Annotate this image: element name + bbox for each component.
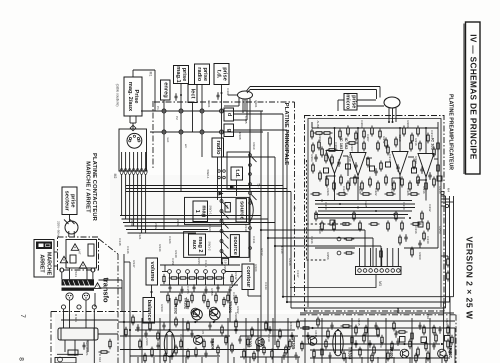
svg-text:prise: prise bbox=[181, 68, 187, 82]
DIN connector circle bbox=[127, 133, 142, 148]
scan haze preamp bbox=[305, 116, 444, 311]
bottom edge stubs bbox=[137, 357, 139, 363]
switch MARCHE/ARRET box bbox=[34, 240, 54, 278]
monitor contacts pair 2 bbox=[337, 251, 341, 255]
wire preamp drop right bbox=[445, 196, 447, 308]
wire down from oval bbox=[244, 99, 246, 111]
connector box prise secteur bbox=[62, 187, 77, 215]
svg-text:R101: R101 bbox=[254, 100, 258, 108]
switch group outline td bbox=[227, 152, 250, 189]
connector box prise micro bbox=[344, 94, 357, 111]
amp band resistors bbox=[132, 315, 134, 318]
preamp board outline bbox=[305, 116, 445, 312]
svg-text:IV — SCHEMAS DE PRINCIPE: IV — SCHEMAS DE PRINCIPE bbox=[469, 34, 478, 160]
control box volume bbox=[146, 258, 158, 285]
svg-text:lect: lect bbox=[190, 89, 196, 99]
preamp vertical drops to strip bbox=[359, 248, 361, 267]
amp band top wire bbox=[300, 312, 454, 314]
op-amp U2 bbox=[350, 153, 366, 176]
svg-text:MARCHE / ARRET: MARCHE / ARRET bbox=[85, 161, 91, 213]
mains plug symbol bbox=[65, 221, 78, 234]
main board outline left edge bbox=[117, 254, 119, 363]
tone area verticals bbox=[151, 285, 153, 297]
wire enreg down bbox=[163, 100, 165, 230]
power supply parts bbox=[55, 358, 76, 363]
wire MARCHE box to contactor bbox=[54, 251, 58, 253]
preamp extra resistors bbox=[311, 129, 313, 132]
pot TR202 bbox=[192, 309, 203, 320]
strip to left wire bbox=[290, 275, 376, 288]
switch box mag 1 bbox=[193, 201, 208, 222]
preamp resistors bbox=[314, 132, 317, 134]
wire row1 horizontal bbox=[141, 110, 263, 112]
cable ellipse to preamp bbox=[384, 97, 400, 108]
svg-text:lect: lect bbox=[166, 138, 170, 143]
amp extra caps bbox=[137, 324, 139, 327]
svg-text:M1: M1 bbox=[149, 72, 153, 77]
connector box enreg bbox=[161, 80, 171, 100]
preamp lower wires bbox=[315, 247, 355, 249]
op-amp U4 bbox=[418, 154, 434, 178]
bus vertical v5 bbox=[286, 130, 288, 302]
bus wires DIN to selectors lower bbox=[120, 215, 261, 217]
svg-text:PLATINE PRINCIPALE: PLATINE PRINCIPALE bbox=[283, 103, 289, 165]
transistor TR201 circle bbox=[209, 307, 218, 316]
amp band verticals bbox=[141, 318, 143, 363]
warning triangle T2 bbox=[60, 256, 68, 263]
main board outline left edge upper bbox=[152, 101, 154, 168]
wire lect down bbox=[192, 103, 194, 133]
amp band ref boxes bbox=[400, 337, 406, 343]
mini box g b bbox=[225, 203, 230, 213]
amp extra parts bbox=[125, 327, 127, 330]
DIN connector wire from prise mag2 bbox=[129, 116, 131, 123]
warning triangle T3 bbox=[79, 262, 87, 269]
svg-text:MARCHE: MARCHE bbox=[46, 252, 52, 276]
connector box prise mag.1 bbox=[174, 66, 189, 84]
signal arrows bbox=[218, 191, 223, 195]
pot TR201 bbox=[210, 309, 221, 320]
bus vertical v3 bbox=[274, 157, 276, 246]
bus corner to output right bbox=[283, 296, 454, 298]
tone resistors row2 bbox=[167, 293, 169, 296]
main board outline bottom left bbox=[51, 311, 150, 313]
connector box lect bbox=[188, 85, 197, 103]
wire dg to right bus bbox=[234, 113, 284, 115]
connector box Prise mag.2/aux bbox=[124, 77, 142, 116]
svg-text:220V~50Hz: 220V~50Hz bbox=[57, 221, 61, 237]
prise secteur wire bbox=[69, 215, 71, 222]
DIN connector entry contact bbox=[130, 125, 136, 131]
selector box t.d. bbox=[231, 167, 243, 180]
switch group outline upper bbox=[185, 197, 250, 224]
switch column x250 bbox=[249, 99, 251, 263]
svg-text:PLATINE PREAMPLIFICATEUR: PLATINE PREAMPLIFICATEUR bbox=[448, 94, 454, 170]
connector contact M4 bbox=[441, 191, 444, 194]
switch bank wire bbox=[221, 200, 223, 263]
tone extra parts bbox=[169, 284, 171, 287]
wire radio socket down bbox=[201, 85, 203, 158]
preamp input drops bbox=[388, 108, 390, 122]
op-amp U1 bbox=[326, 151, 343, 174]
main board outline top edge bbox=[154, 101, 295, 103]
svg-text:P1: P1 bbox=[156, 106, 160, 110]
svg-text:enr: enr bbox=[184, 144, 188, 148]
preamp mid rails bbox=[315, 200, 412, 202]
td switch contacts bbox=[218, 170, 221, 173]
tone verticals bbox=[169, 273, 171, 285]
cable sleeve oval bbox=[238, 91, 253, 99]
bus vertical v4 bbox=[282, 114, 284, 297]
contour switch diagonal bbox=[231, 275, 242, 288]
svg-text:secteur: secteur bbox=[63, 191, 69, 212]
contactor board outline bbox=[58, 237, 99, 270]
transistor TR407 bbox=[438, 349, 447, 358]
wire pair to preamp ellipse bbox=[250, 86, 380, 88]
svg-text:t.d.: t.d. bbox=[215, 70, 221, 79]
svg-text:radio: radio bbox=[215, 141, 221, 155]
electrolytic C327 bbox=[164, 331, 174, 357]
svg-text:ARRET: ARRET bbox=[39, 254, 45, 273]
svg-text:micro: micro bbox=[345, 94, 351, 110]
svg-text:LAT: LAT bbox=[78, 249, 82, 254]
preamp junction dots bbox=[334, 127, 336, 129]
cable oval drop wires bbox=[238, 98, 240, 106]
preamp caps bbox=[315, 154, 317, 157]
main board outline right edge bbox=[294, 102, 296, 296]
electrolytic C427 bbox=[333, 330, 343, 356]
scan haze bottom band bbox=[55, 314, 460, 363]
svg-text:d: d bbox=[226, 113, 232, 116]
transformer terminal M right bbox=[82, 293, 89, 300]
amp left verticals bbox=[123, 254, 125, 363]
op-amp U3 bbox=[392, 152, 408, 176]
selector box radio bbox=[212, 138, 224, 157]
svg-text:radio: radio bbox=[196, 67, 202, 81]
tone resistors row1 bbox=[169, 277, 172, 279]
svg-text:P101: P101 bbox=[74, 270, 78, 277]
wire mag2aux stub bbox=[132, 70, 134, 77]
svg-text:PLATINE CONTACTEUR: PLATINE CONTACTEUR bbox=[91, 153, 97, 222]
amp band caps bbox=[145, 330, 147, 333]
preamp ground loop bbox=[308, 119, 441, 308]
preamp feedback wires bbox=[343, 155, 348, 157]
transistor TR406 bbox=[400, 349, 409, 358]
micro wires bbox=[357, 99, 376, 101]
cable arc bbox=[250, 198, 253, 222]
contactor wires bbox=[69, 268, 71, 279]
transistor TR303 bbox=[256, 338, 265, 347]
wire td box down bbox=[236, 180, 238, 196]
transistor TR305 bbox=[308, 337, 317, 346]
power supply extra parts bbox=[83, 342, 85, 345]
preamp right small parts bbox=[447, 257, 449, 260]
wire radio box down bbox=[217, 157, 219, 200]
wire row2 horizontal bbox=[150, 131, 263, 133]
bundle verticals to bus bbox=[121, 214, 123, 217]
contactor edge contacts bbox=[61, 305, 65, 309]
transformer core bar 2 bbox=[62, 288, 95, 291]
svg-text:C105: C105 bbox=[244, 116, 248, 124]
amp extra wires bbox=[120, 335, 230, 337]
transformer terminal M left bbox=[66, 293, 73, 300]
wire mag1 socket down bbox=[180, 84, 182, 193]
power supply bridge block bbox=[58, 328, 98, 340]
switch group outline lower bbox=[184, 232, 249, 258]
svg-text:Prise: Prise bbox=[133, 90, 139, 104]
svg-text:prise: prise bbox=[70, 194, 76, 208]
svg-text:(câble souderie): (câble souderie) bbox=[116, 84, 120, 107]
preamp bottom connector strip bbox=[356, 267, 402, 275]
svg-text:M4: M4 bbox=[447, 188, 451, 192]
board link diagonal bbox=[99, 239, 118, 254]
preamp right contact 2 bbox=[445, 204, 448, 207]
wire bundle down from DIN bbox=[121, 175, 123, 216]
contactor edge contacts upper bbox=[60, 268, 64, 272]
warning triangle T1 bbox=[71, 244, 79, 251]
svg-text:mag. 2/aux: mag. 2/aux bbox=[127, 82, 133, 112]
switch box source upper bbox=[236, 199, 247, 222]
bus vertical v1 bbox=[260, 111, 262, 230]
input RC parts bbox=[175, 93, 177, 96]
DIN connector pins fan bbox=[121, 152, 123, 171]
bus vertical v2 bbox=[267, 132, 269, 238]
wire t.d. socket down bbox=[221, 85, 223, 201]
transistor TR306 bbox=[193, 335, 202, 344]
svg-text:C101: C101 bbox=[207, 100, 211, 108]
transformer secondary wires bbox=[69, 300, 71, 312]
preamp top rail bbox=[312, 127, 438, 129]
junction row 1 contacts bbox=[162, 109, 166, 113]
title box IV - SCHEMAS DE PRINCIPE bbox=[466, 22, 481, 174]
svg-text:enreg: enreg bbox=[162, 82, 168, 98]
connector ref box 19 bbox=[222, 259, 229, 265]
preamp interconnect wires bbox=[334, 128, 336, 151]
scan haze mid left bbox=[110, 175, 305, 310]
svg-text:prise: prise bbox=[222, 67, 228, 81]
bus vertical v6 bbox=[290, 192, 292, 309]
channel box d bbox=[224, 108, 234, 121]
transformer core bar 1 bbox=[62, 279, 95, 285]
preamp ref boxes bbox=[346, 164, 351, 169]
transistor TR302 bbox=[191, 308, 200, 317]
contactor inner block bbox=[66, 240, 97, 269]
bus wires DIN to selectors upper bbox=[126, 185, 283, 187]
warning triangle transformer bbox=[94, 283, 101, 289]
svg-text:g: g bbox=[226, 129, 232, 132]
svg-text:transfo: transfo bbox=[102, 277, 111, 303]
main board outline bottom edge bbox=[300, 314, 456, 316]
svg-text:C102: C102 bbox=[226, 88, 230, 96]
switch MARCHE/ARRET icon bbox=[36, 242, 52, 250]
control box contour bbox=[242, 264, 254, 290]
svg-text:R108: R108 bbox=[238, 132, 242, 140]
power supply wires bbox=[69, 313, 71, 329]
svg-text:7: 7 bbox=[19, 314, 26, 318]
svg-text:8: 8 bbox=[18, 357, 25, 361]
contactor to main board wires bbox=[99, 279, 123, 281]
connector box prise t.d. bbox=[214, 64, 229, 85]
channel box g bbox=[224, 124, 234, 137]
tone wires mid bbox=[160, 284, 238, 286]
switch contacts bbox=[220, 200, 223, 203]
svg-text:prise: prise bbox=[202, 67, 208, 81]
amp band bus wires bbox=[118, 321, 300, 323]
DIN connector outline box bbox=[119, 129, 147, 171]
control box balance bbox=[143, 298, 155, 324]
monitor contacts pair 1 bbox=[337, 237, 341, 241]
tone area top wires bbox=[160, 264, 240, 266]
pot drop wires bbox=[196, 320, 198, 322]
amp band junction dots bbox=[194, 321, 196, 323]
tone contact row bbox=[168, 270, 172, 274]
junction row 2 contacts bbox=[162, 130, 166, 134]
switch box source lower bbox=[230, 235, 239, 257]
contactor small parts bbox=[70, 255, 76, 263]
svg-text:mag.1: mag.1 bbox=[175, 66, 181, 82]
switch box mag 2 aux bbox=[189, 234, 206, 255]
shielded cable dashed paths bbox=[306, 160, 308, 260]
connector box prise radio bbox=[195, 64, 210, 85]
svg-text:P2: P2 bbox=[175, 116, 179, 120]
svg-text:VERSION 2 × 25 W: VERSION 2 × 25 W bbox=[465, 237, 475, 320]
svg-text:R110: R110 bbox=[252, 143, 256, 150]
